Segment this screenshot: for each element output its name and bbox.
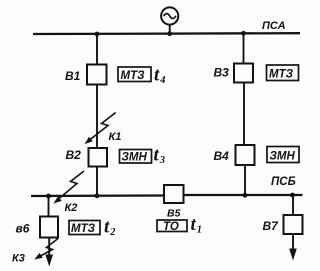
svg-text:К2: К2 [65, 202, 78, 214]
relay TO [157, 220, 187, 233]
wire bus to B1 [96, 34, 98, 65]
wire B2 to bus PSB [96, 167, 98, 197]
svg-text:t1: t1 [191, 214, 203, 236]
breaker B6 [40, 217, 58, 238]
load arrow under B6 [45, 238, 53, 267]
wire bus to B7 [292, 195, 294, 215]
relay MTZ2 [267, 65, 299, 81]
svg-text:ТО: ТО [163, 221, 179, 233]
breaker B2 [89, 148, 108, 167]
breaker B7 [284, 215, 303, 234]
fault K2 [54, 171, 85, 204]
bus PSB right segment [184, 194, 303, 196]
node bus-B7 junction [290, 193, 295, 198]
relay MTZ1 [118, 67, 151, 82]
node bus-B3 junction [241, 31, 246, 36]
node generator junction [167, 31, 172, 36]
svg-text:t3: t3 [154, 145, 166, 167]
svg-text:В1: В1 [65, 69, 81, 83]
generator G [161, 7, 178, 24]
wire B3 to B4 [243, 83, 245, 146]
svg-text:ПСА: ПСА [262, 20, 286, 32]
svg-text:в6: в6 [16, 222, 30, 236]
svg-text:t4: t4 [154, 65, 166, 87]
svg-text:МТЗ: МТЗ [71, 223, 96, 235]
wire B1 to B2 [96, 85, 98, 149]
relay MTZ3 [69, 221, 100, 236]
svg-text:В3: В3 [214, 66, 230, 80]
svg-text:К1: К1 [109, 131, 122, 143]
wire B4 to bus PSB [244, 165, 246, 196]
svg-text:МТЗ: МТЗ [269, 69, 294, 81]
load arrow under B7 [289, 234, 297, 261]
relay ZMN1 [120, 150, 152, 164]
breaker B3 [234, 64, 253, 83]
wire bus to B3 [243, 33, 245, 64]
node bus-B1 junction [95, 32, 100, 37]
svg-text:ПСБ: ПСБ [271, 176, 296, 188]
relay ZMN2 [267, 147, 299, 163]
breaker B5 on bus [164, 185, 184, 203]
bus PSA [33, 32, 300, 35]
svg-text:В7: В7 [263, 219, 280, 233]
wire generator stem [169, 25, 171, 34]
fault K3 [34, 239, 58, 260]
svg-text:К3: К3 [12, 253, 25, 265]
bus PSB left segment [31, 194, 164, 197]
svg-text:ЗМН: ЗМН [270, 151, 296, 163]
node B4 line to bus junction [243, 193, 248, 198]
svg-text:ЗМН: ЗМН [122, 152, 148, 164]
svg-text:В2: В2 [66, 148, 82, 162]
node bus-B6 junction [46, 194, 51, 199]
node B2 line to bus junction [95, 193, 100, 198]
svg-text:МТЗ: МТЗ [121, 70, 146, 82]
wire bus to B6 [48, 196, 50, 217]
svg-text:t2: t2 [104, 217, 116, 239]
svg-text:В4: В4 [214, 149, 230, 163]
svg-text:В5: В5 [167, 208, 181, 220]
breaker B4 [236, 145, 255, 165]
breaker B1 [87, 65, 107, 85]
fault K1 [85, 113, 116, 145]
